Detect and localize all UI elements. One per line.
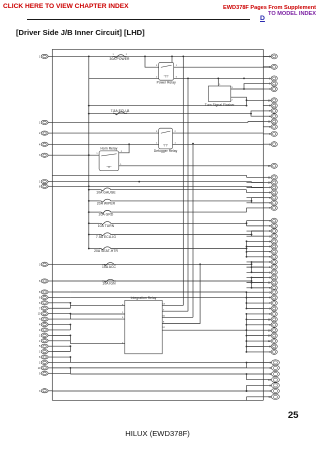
svg-text:8: 8	[39, 185, 41, 188]
svg-text:3: 3	[39, 154, 41, 157]
svg-text:11: 11	[268, 121, 271, 124]
svg-text:30A POWER: 30A POWER	[110, 57, 130, 61]
svg-text:3: 3	[39, 390, 41, 393]
svg-text:6: 6	[39, 296, 41, 299]
svg-text:1: 1	[39, 121, 41, 124]
svg-text:"TT": "TT"	[106, 165, 111, 169]
svg-text:11: 11	[268, 282, 271, 285]
svg-text:10: 10	[38, 313, 41, 316]
svg-text:1: 1	[39, 340, 41, 343]
svg-text:1: 1	[219, 84, 221, 86]
svg-text:13: 13	[268, 335, 271, 338]
svg-text:"TT": "TT"	[163, 143, 168, 147]
svg-text:1: 1	[39, 361, 41, 364]
svg-text:Integration Relay: Integration Relay	[131, 296, 157, 300]
svg-text:7.5A ECU-B: 7.5A ECU-B	[111, 109, 130, 113]
svg-text:4: 4	[39, 329, 41, 332]
svg-text:10A IGN: 10A IGN	[102, 282, 116, 286]
svg-text:3: 3	[39, 263, 41, 266]
svg-text:10: 10	[38, 367, 41, 370]
svg-text:10: 10	[268, 329, 271, 332]
svg-text:1: 1	[39, 181, 41, 184]
svg-text:1: 1	[112, 54, 114, 56]
svg-text:12: 12	[162, 327, 165, 329]
svg-text:"TT": "TT"	[164, 75, 169, 79]
svg-text:Defogger Relay: Defogger Relay	[154, 149, 178, 153]
svg-text:20A GRD: 20A GRD	[99, 213, 114, 217]
svg-text:6: 6	[39, 280, 41, 283]
svg-text:4: 4	[39, 324, 41, 327]
svg-text:1: 1	[39, 334, 41, 337]
svg-text:11: 11	[268, 176, 271, 179]
svg-text:2: 2	[126, 54, 128, 56]
svg-text:10: 10	[268, 182, 271, 185]
svg-text:5: 5	[39, 345, 41, 348]
svg-text:Horn Relay: Horn Relay	[100, 147, 117, 151]
svg-text:16: 16	[268, 165, 271, 168]
svg-text:7.5A ECU-IG: 7.5A ECU-IG	[96, 235, 116, 239]
svg-text:2: 2	[231, 100, 233, 102]
svg-text:10A GAUGE: 10A GAUGE	[96, 190, 116, 194]
svg-text:20A WIPER: 20A WIPER	[97, 202, 116, 206]
svg-text:3: 3	[39, 318, 41, 321]
svg-text:10: 10	[268, 379, 271, 382]
svg-text:12: 12	[268, 340, 271, 343]
svg-text:Power Relay: Power Relay	[157, 80, 176, 84]
svg-text:10A TURN: 10A TURN	[98, 224, 115, 228]
svg-text:20A SEAT-HTR: 20A SEAT-HTR	[94, 249, 118, 253]
svg-text:1: 1	[96, 153, 98, 155]
svg-text:8: 8	[39, 291, 41, 294]
svg-text:4: 4	[39, 143, 41, 146]
svg-text:1: 1	[39, 55, 41, 58]
svg-text:Turn Signal Flasher: Turn Signal Flasher	[205, 103, 235, 107]
svg-text:9: 9	[39, 372, 41, 375]
svg-text:15A ACC: 15A ACC	[102, 265, 117, 269]
svg-text:7: 7	[39, 307, 41, 310]
svg-text:11: 11	[268, 396, 271, 399]
svg-text:6: 6	[39, 356, 41, 359]
svg-text:12: 12	[268, 318, 271, 321]
svg-text:10: 10	[268, 99, 271, 102]
svg-text:2: 2	[39, 132, 41, 135]
svg-text:6: 6	[39, 302, 41, 305]
svg-text:1: 1	[39, 351, 41, 354]
